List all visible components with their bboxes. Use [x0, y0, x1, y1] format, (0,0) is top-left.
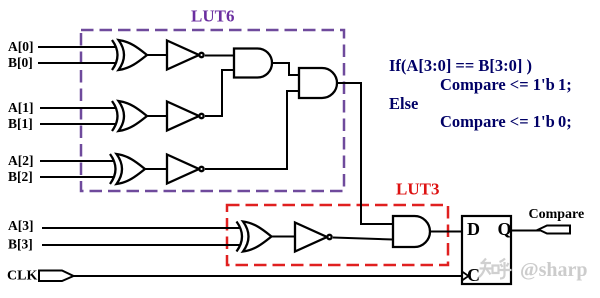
and gate AND3 [393, 216, 430, 247]
svg-text:B[3]: B[3] [8, 237, 33, 252]
wire XOR3 to INV3 [145, 168, 167, 170]
svg-text:A[3]: A[3] [8, 218, 34, 233]
wire INV4 to AND3 [333, 238, 393, 240]
wire FF Q to output pin [510, 230, 540, 232]
svg-text:Compare <= 1'b 1;: Compare <= 1'b 1; [440, 75, 572, 94]
svg-text:If(A[3:0] == B[3:0] ): If(A[3:0] == B[3:0] ) [389, 56, 532, 75]
and gate AND2 [299, 68, 337, 98]
svg-text:Else: Else [389, 94, 418, 113]
LUT6 dashed box [81, 30, 344, 191]
output pin Compare [539, 226, 571, 234]
svg-text:A[2]: A[2] [8, 153, 34, 168]
xor gate XOR3 [110, 154, 145, 184]
wire A[2] [40, 160, 114, 162]
svg-text:LUT6: LUT6 [191, 7, 234, 26]
xor gate XOR4 [237, 222, 272, 252]
wire CLK to FF C [73, 275, 462, 277]
svg-text:LUT3: LUT3 [396, 180, 439, 199]
svg-text:B[1]: B[1] [8, 116, 33, 131]
wire AND3 to FF D [430, 231, 462, 233]
wire AND1 to AND2 [272, 63, 299, 75]
wire INV1 to AND1 [205, 55, 234, 57]
inverter INV2 [167, 102, 204, 131]
wire INV3 to AND2 (up) [205, 91, 299, 169]
LUT3 dashed box [227, 205, 448, 265]
wire INV2 to AND1 (up) [205, 70, 234, 116]
wire XOR1 to INV1 [147, 54, 167, 56]
svg-text:Q: Q [498, 219, 512, 239]
D flip-flop [462, 216, 511, 284]
svg-text:@sharp: @sharp [520, 259, 588, 281]
svg-text:C: C [467, 265, 480, 285]
xor gate XOR1 [112, 40, 147, 70]
wire XOR2 to INV2 [147, 115, 167, 117]
wire B[3] [42, 244, 240, 246]
wire B[2] [40, 176, 114, 178]
wire B[0] [38, 62, 116, 64]
svg-text:Compare: Compare [529, 207, 585, 222]
inverter INV4 [295, 223, 332, 252]
xor gate XOR2 [112, 101, 147, 131]
inverter INV3 [167, 155, 204, 184]
wire A[0] [38, 46, 116, 48]
wire XOR4 to INV4 [272, 236, 296, 238]
clock triangle [462, 272, 469, 281]
svg-text:A[1]: A[1] [8, 100, 34, 115]
svg-text:D: D [467, 219, 480, 239]
svg-text:A[0]: A[0] [8, 39, 34, 54]
wire B[1] [40, 123, 116, 125]
wire A[1] [40, 107, 116, 109]
wire A[3] [42, 227, 240, 229]
svg-text:B[0]: B[0] [8, 55, 33, 70]
wire AND2 to AND3 (down) [337, 83, 393, 224]
svg-text:B[2]: B[2] [8, 169, 33, 184]
inverter INV1 [167, 41, 204, 70]
svg-text:Compare <= 1'b 0;: Compare <= 1'b 0; [440, 112, 572, 131]
svg-text:CLK: CLK [7, 269, 37, 284]
and gate AND1 [234, 49, 272, 78]
input pin CLK [39, 271, 74, 282]
watermark zhihu glyphs [479, 259, 512, 279]
